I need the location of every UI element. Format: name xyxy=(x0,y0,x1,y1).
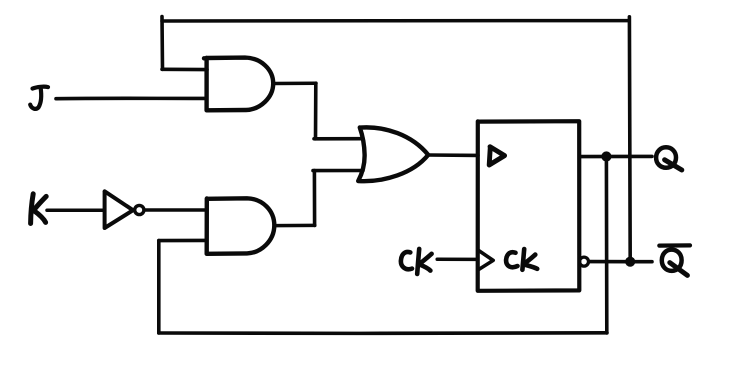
wire: CK external to clock input xyxy=(437,258,476,262)
wire: Qbar feedback vertical up xyxy=(628,17,632,262)
op gate: bottom AND gate (K'·Q) xyxy=(207,198,275,254)
flip-flop D input triangle indicator xyxy=(489,147,504,165)
node J label xyxy=(30,87,48,109)
wire: J input xyxy=(56,97,206,101)
inverter (NOT gate) triangle xyxy=(105,191,133,228)
wire: Q output xyxy=(579,155,652,159)
wire: top AND output to corner xyxy=(273,81,316,85)
wire: OR output to flip-flop xyxy=(428,153,478,157)
wire: bottom AND output to corner xyxy=(274,224,315,228)
wire: vertical up to OR bottom input xyxy=(313,171,317,226)
wire: K to inverter xyxy=(47,208,104,212)
wire: Qbar output xyxy=(589,260,652,264)
flip-flop U4 box xyxy=(478,121,580,291)
inverter bubble xyxy=(135,205,144,214)
wire: into OR gate top input xyxy=(314,137,363,141)
op gate: OR gate U3 xyxy=(358,127,428,181)
wire: into OR gate bottom input xyxy=(313,169,363,173)
wire: Q feedback vertical down xyxy=(605,157,609,334)
wire: bottom feedback stub into AND xyxy=(159,239,207,243)
wire: top feedback horizontal (Qbar to top AND) xyxy=(162,19,629,23)
junction dot on Qbar xyxy=(625,257,635,267)
flip-flop Qbar bubble xyxy=(580,257,589,266)
wire: bottom feedback horizontal xyxy=(159,331,607,335)
label: Qbar output with overbar xyxy=(659,245,690,275)
label: Q output xyxy=(656,147,682,170)
wire: stub into top AND input xyxy=(162,68,207,72)
flip-flop clock wedge xyxy=(479,250,494,269)
label: CK internal xyxy=(506,249,537,270)
wire: inverter to bottom AND xyxy=(144,208,206,212)
op gate: top AND gate (J·Qbar) xyxy=(204,58,273,111)
wire: top feedback left vertical xyxy=(160,17,164,70)
wire: vertical down to OR top input xyxy=(314,83,318,139)
junction dot on Q xyxy=(601,151,611,161)
label: CK external xyxy=(401,249,432,274)
wire: bottom feedback left vertical xyxy=(157,241,161,333)
node K label xyxy=(31,194,47,224)
